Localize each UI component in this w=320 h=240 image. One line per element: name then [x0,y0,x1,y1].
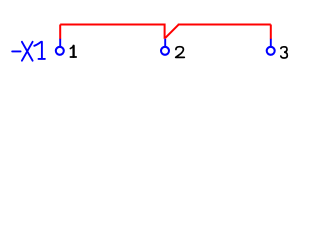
wire: terminal 2 vertical drop [164,24,166,39]
wire: top horizontal left segment [60,24,164,26]
terminal X1:3 symbol (stub + circle) [267,39,275,55]
wire: terminal 1 vertical drop [59,25,61,40]
terminal X1:2 symbol (stub + circle) [161,39,169,55]
pin number 3 [281,47,288,58]
wire: terminal 3 vertical drop [270,25,272,40]
pin number 1 [70,46,76,57]
pin number 2 [176,47,185,58]
wire: diagonal branch at terminal 2 junction [165,25,179,39]
1 of -X1 [34,42,45,59]
X of -X1 [22,42,33,61]
wire: top horizontal right segment [178,24,271,26]
terminal strip label -X1 [12,42,45,61]
terminal X1:1 symbol (stub + circle) [56,39,64,55]
hyphen of -X1 [12,50,20,52]
